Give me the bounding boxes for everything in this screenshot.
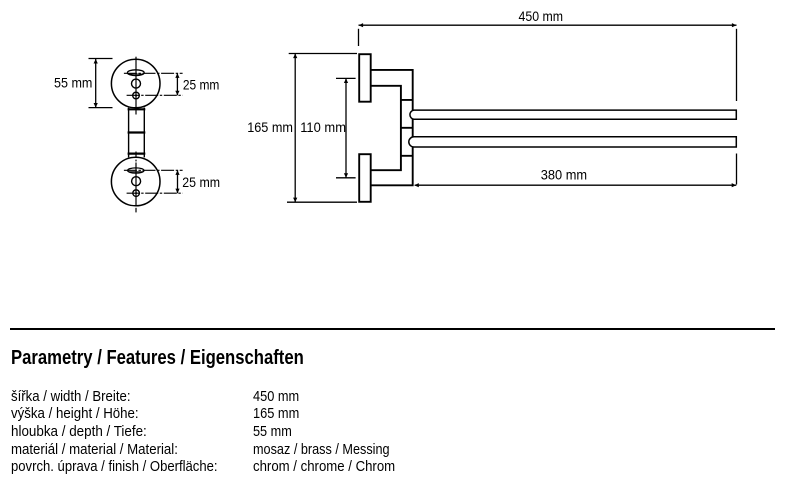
table rows: values [253,388,299,405]
table rows: labels [11,388,131,405]
left view: top roundel [111,59,160,108]
technical drawing SVG [0,0,788,340]
separator rule [10,328,775,330]
dimension 55 mm [89,59,113,108]
svg-text:450 mm: 450 mm [519,8,564,24]
dimension 110 mm [336,78,356,177]
small hole bottom roundel [133,190,140,197]
vertical centerline left view [135,57,137,213]
svg-text:25 mm: 25 mm [183,77,220,93]
right view: top wall plate [359,54,371,101]
dimension 25 mm top [176,73,178,95]
small hole top roundel [133,92,140,99]
dimension 25 mm bottom [177,170,179,193]
dimension 165 mm [287,54,357,203]
table heading [11,347,304,370]
svg-text:25 mm: 25 mm [182,174,220,190]
right view: bottom wall plate [359,154,371,202]
bar 2 [409,137,737,147]
svg-text:380 mm: 380 mm [541,167,587,183]
dimension 450 mm [359,25,737,184]
svg-text:165 mm: 165 mm [247,119,293,135]
dimension 380 mm [415,184,737,186]
bracket dividers [401,100,413,156]
right view: bracket outline [371,70,413,185]
bar 1 [410,110,736,119]
hole bottom roundel [132,177,141,186]
hole top roundel [132,79,141,88]
svg-text:55 mm: 55 mm [54,74,92,90]
slot top roundel [127,70,144,76]
left view: connecting post [129,108,145,158]
slot bottom roundel [128,168,144,173]
svg-text:110 mm: 110 mm [300,119,346,135]
left view: bottom roundel [111,157,160,206]
horizontal centerlines left view [124,73,183,193]
